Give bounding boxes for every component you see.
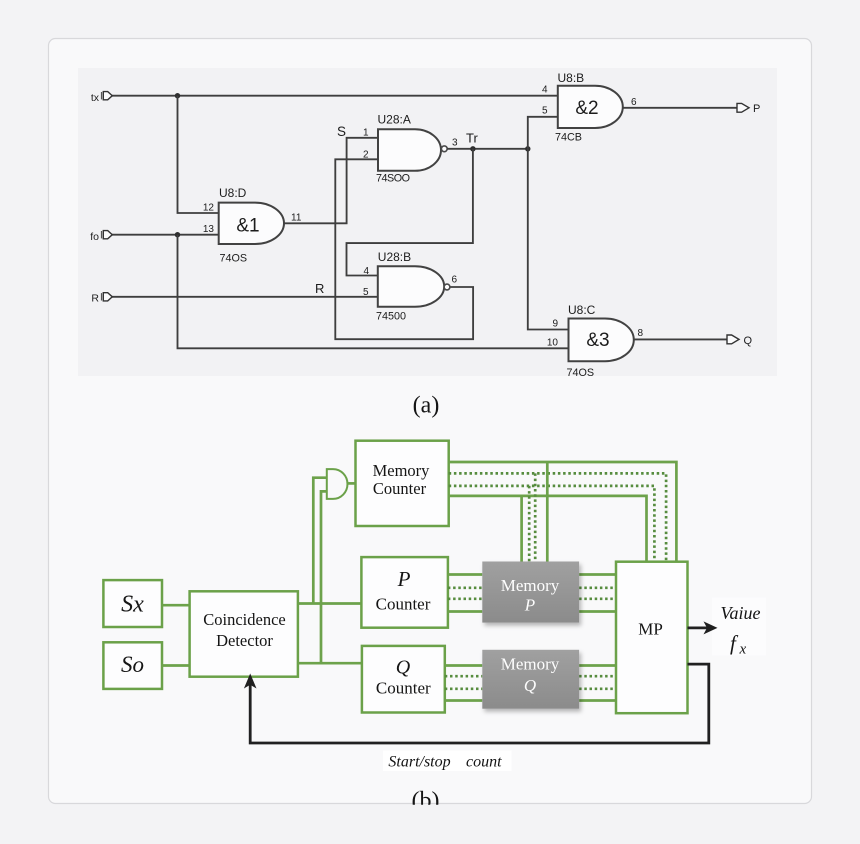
wire Tr down to U8:C pin 9 xyxy=(528,149,569,330)
wire tx branch down to U8:D pin 12 xyxy=(178,96,219,213)
svg-text:Detector: Detector xyxy=(216,631,273,650)
wire Memory P to MP solid 2 xyxy=(579,610,616,613)
svg-text:Q: Q xyxy=(524,676,536,695)
wire Q Counter to Memory Q solid xyxy=(445,664,483,667)
block Sx xyxy=(103,580,162,627)
wire branch up to gate input 1 xyxy=(313,478,327,604)
svg-text:10: 10 xyxy=(547,338,559,349)
svg-text:P: P xyxy=(397,567,411,591)
wire P Counter to Memory P solid 2 xyxy=(448,610,482,613)
wire Memory P to MP dashed 2 xyxy=(579,597,616,600)
svg-text:&3: &3 xyxy=(586,330,609,351)
svg-text:Memory: Memory xyxy=(373,461,431,480)
svg-text:11: 11 xyxy=(291,213,302,224)
svg-text:Start/stop: Start/stop xyxy=(388,753,450,770)
block Q Counter xyxy=(362,646,445,713)
svg-text:Coincidence: Coincidence xyxy=(203,610,285,629)
svg-text:Tr: Tr xyxy=(466,131,478,146)
wire fo branch down to U8:C pin 10 xyxy=(178,235,569,349)
block Memory Q xyxy=(482,650,579,709)
svg-text:9: 9 xyxy=(552,319,558,330)
and-gate U8:B xyxy=(558,86,623,128)
wire feedback MP to Coincidence Detector xyxy=(250,664,709,743)
wire memory-counter bus dashed 1 to MP xyxy=(449,473,666,561)
svg-text:&1: &1 xyxy=(236,215,259,236)
wire tx horizontal to U8:B pin 4 xyxy=(112,95,558,97)
wire Coincidence Detector to Q Counter xyxy=(298,662,362,665)
svg-text:6: 6 xyxy=(631,97,637,108)
svg-text:&2: &2 xyxy=(575,98,598,119)
wire U8:B output 6 to P xyxy=(623,107,737,109)
svg-text:Memory: Memory xyxy=(501,576,560,595)
wire R to U28:B pin 5 xyxy=(112,296,378,298)
input port R xyxy=(103,293,112,301)
nand-gate U28:B xyxy=(378,266,444,306)
wire U8:B pin 5 from Tr xyxy=(528,117,558,149)
node Tr junction 1 xyxy=(470,146,475,151)
block Coincidence Detector xyxy=(190,591,298,676)
svg-text:74500: 74500 xyxy=(376,311,406,323)
wire U8:C output 8 to Q xyxy=(634,338,727,340)
wire Memory P to MP dashed xyxy=(579,586,616,589)
block MP xyxy=(616,562,688,714)
wire Memory Q to MP dashed 2 xyxy=(579,687,616,690)
wire So to Coincidence Detector xyxy=(162,664,190,667)
input port tx xyxy=(103,92,112,100)
wire memory-counter bus dashed 2 to MP xyxy=(449,486,655,562)
wire P Counter to Memory P dashed xyxy=(448,586,482,589)
svg-text:8: 8 xyxy=(638,328,644,339)
output port Q xyxy=(727,335,739,344)
wire Memory Q to MP solid xyxy=(579,664,616,667)
svg-text:count: count xyxy=(466,753,502,770)
label Start/stop count band xyxy=(383,751,512,772)
svg-text:12: 12 xyxy=(203,203,215,214)
wire P Counter to Memory P dashed 2 xyxy=(448,597,482,600)
svg-text:P: P xyxy=(524,596,535,615)
block So xyxy=(103,642,162,689)
svg-text:5: 5 xyxy=(363,287,369,298)
nand-gate U28:A xyxy=(378,129,441,171)
svg-text:P: P xyxy=(753,103,760,115)
wire Tr from U28:A output xyxy=(447,148,528,150)
wire branch solid 2 to Memory P xyxy=(520,496,523,562)
wire P Counter to Memory P solid xyxy=(448,573,482,576)
svg-text:74CB: 74CB xyxy=(555,132,582,144)
svg-text:R: R xyxy=(91,293,99,305)
wire fo to U8:D pin 13 xyxy=(112,234,219,236)
block Memory Counter xyxy=(356,441,449,526)
svg-text:4: 4 xyxy=(542,84,548,95)
wire branch solid to Memory P xyxy=(546,462,549,562)
svg-text:Counter: Counter xyxy=(376,679,431,698)
svg-text:MP: MP xyxy=(638,620,663,639)
svg-text:U8:B: U8:B xyxy=(558,71,585,85)
svg-text:6: 6 xyxy=(452,275,458,286)
wire Memory Q to MP solid 2 xyxy=(579,699,616,702)
svg-text:x: x xyxy=(739,642,747,658)
and-gate U8:C xyxy=(569,319,634,362)
svg-text:S: S xyxy=(337,124,346,139)
wire Q Counter to Memory Q solid 2 xyxy=(445,699,483,702)
svg-text:Memory: Memory xyxy=(501,655,560,674)
svg-text:Counter: Counter xyxy=(376,594,431,613)
svg-text:fo: fo xyxy=(90,231,99,243)
svg-text:U28:A: U28:A xyxy=(378,113,411,127)
wire branch dashed to Memory P xyxy=(534,473,537,561)
svg-text:R: R xyxy=(315,281,324,296)
wire Sx to Coincidence Detector xyxy=(162,604,190,607)
svg-text:3: 3 xyxy=(452,138,458,149)
block P Counter xyxy=(361,557,448,628)
svg-text:Vaiue: Vaiue xyxy=(721,603,761,623)
wire branch up to gate input 2 xyxy=(321,491,327,663)
node tx junction xyxy=(175,93,180,98)
wire Q Counter to Memory Q dashed 2 xyxy=(445,687,483,690)
svg-text:U8:D: U8:D xyxy=(219,186,247,200)
svg-text:So: So xyxy=(121,652,144,677)
caption (b) clipped xyxy=(412,788,440,814)
svg-text:74SOO: 74SOO xyxy=(376,172,410,184)
output port P xyxy=(737,103,749,112)
node fo junction xyxy=(175,232,180,237)
wire U28:B output 6 feedback to U28:A pin 2 xyxy=(335,159,473,339)
label background for Vaiue fx xyxy=(712,598,766,656)
svg-text:Q: Q xyxy=(396,657,411,679)
wire memory-counter bus solid 2 to MP xyxy=(449,496,647,562)
svg-text:1: 1 xyxy=(363,128,369,139)
and-gate U8:D xyxy=(219,203,284,244)
node Tr junction 2 xyxy=(525,146,530,151)
wire U8:D output 11 to U28:A pin 1 (node S) xyxy=(284,138,378,224)
wire Tr feedback to U28:B pin 4 xyxy=(347,149,473,276)
svg-text:Counter: Counter xyxy=(373,479,427,498)
svg-text:U8:C: U8:C xyxy=(568,303,596,317)
svg-text:(a): (a) xyxy=(413,393,440,419)
svg-text:74OS: 74OS xyxy=(220,253,248,265)
svg-text:74OS: 74OS xyxy=(567,367,595,379)
wire Q Counter to Memory Q dashed xyxy=(445,675,483,678)
wire memory-counter bus solid 1 to MP xyxy=(449,462,677,562)
svg-text:4: 4 xyxy=(363,266,369,277)
wire Memory P to MP solid xyxy=(579,573,616,576)
wire Coincidence Detector to P Counter xyxy=(298,602,362,605)
svg-text:Sx: Sx xyxy=(121,592,144,618)
block Memory P xyxy=(482,562,579,623)
wire Memory Q to MP dashed xyxy=(579,675,616,678)
wire MP output value arrow xyxy=(688,627,709,630)
svg-text:13: 13 xyxy=(203,224,215,235)
svg-text:Q: Q xyxy=(744,335,753,347)
input port fo xyxy=(103,231,112,239)
wire branch dashed 2 to Memory P xyxy=(528,486,531,562)
figure (a) background xyxy=(78,68,777,376)
svg-text:U28:B: U28:B xyxy=(378,250,411,264)
svg-text:tx: tx xyxy=(91,92,100,104)
wire gate output to Memory Counter xyxy=(347,482,355,485)
and-gate (memory counter enable) xyxy=(327,469,348,499)
svg-text:5: 5 xyxy=(542,106,548,117)
